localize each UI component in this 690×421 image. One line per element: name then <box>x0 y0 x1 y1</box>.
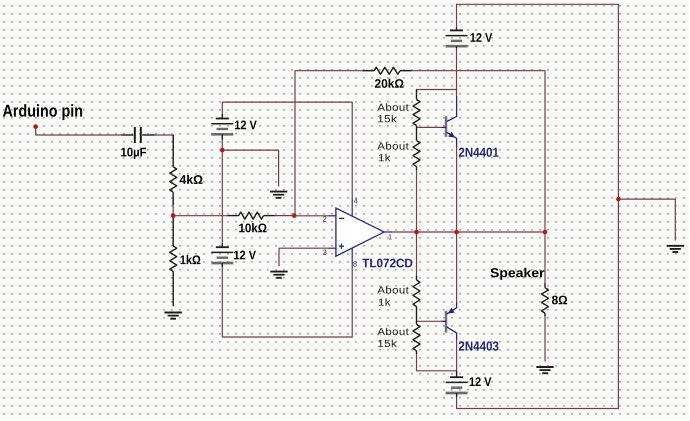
wire top chain corner to +rail <box>417 90 457 98</box>
pin 2 label <box>323 216 326 221</box>
label 1kΩ <box>180 255 200 264</box>
junction node J2 <box>171 213 176 218</box>
pin 4 label <box>354 198 358 203</box>
pin 1 label <box>389 234 392 239</box>
resistor About-1k lower <box>413 276 420 307</box>
transistor Q1 2N4401 <box>442 96 457 147</box>
wire 20k to output column corner <box>412 71 546 232</box>
wire Q1 base <box>417 126 442 128</box>
label 10kΩ <box>239 223 266 232</box>
resistor 1kΩ <box>170 216 177 307</box>
label Speaker <box>490 268 544 280</box>
wire op-amp output to speaker node <box>391 231 545 233</box>
wire battery V3 minus to op-amp pin 8 <box>222 264 352 337</box>
battery V4 12V <box>446 371 468 397</box>
wire node B to op-amp pin 2 <box>294 215 328 217</box>
pin 8 label <box>353 261 357 266</box>
wire node D to right ground G5 <box>618 199 675 240</box>
ground G5 <box>667 246 684 252</box>
wire bottom 15k to battery V4 node <box>417 354 457 371</box>
label TL072CD <box>362 259 412 268</box>
pin 3 label <box>323 250 327 255</box>
label 20kΩ <box>375 79 404 88</box>
label About (15k lower) <box>377 328 408 335</box>
resistor 20kΩ <box>363 67 412 74</box>
label 1k upper <box>379 154 391 161</box>
junction node J6 <box>454 230 459 235</box>
junction node J7 <box>543 230 548 235</box>
wire node C down to battery V3 <box>221 150 223 243</box>
wire node C to ground G2 <box>222 150 278 186</box>
label 4kΩ <box>180 175 203 184</box>
ground G3 <box>270 272 287 278</box>
label About (1k upper) <box>377 142 408 149</box>
op-amp U1 TL072CD <box>329 198 393 264</box>
label 2N4403 <box>459 341 499 350</box>
ground G4 <box>536 367 553 373</box>
ground G1 <box>165 313 182 319</box>
wire speaker node down to 8ohm <box>544 232 546 283</box>
label About (15k upper) <box>377 103 408 110</box>
label Arduino pin <box>3 104 82 120</box>
label 15k lower <box>378 340 397 347</box>
label 10µF <box>121 148 146 159</box>
resistor 10kΩ <box>228 212 275 219</box>
label V3 12 V <box>234 251 256 260</box>
wire capacitor to 4k resistor corner <box>155 135 174 155</box>
junction node J3 <box>220 148 225 153</box>
battery V2 12V <box>211 114 233 140</box>
label 1k lower <box>379 298 391 305</box>
junction node J8 <box>616 197 621 202</box>
label 15k upper <box>378 115 397 122</box>
wire feedback: node B up and right to 20k <box>295 71 363 216</box>
junction node J4 <box>292 213 297 218</box>
resistor About-1k upper <box>413 141 420 171</box>
ground G2 <box>270 192 287 198</box>
wire battery V2 plus to op-amp pin 4 <box>222 102 352 198</box>
label About (1k lower) <box>377 286 408 293</box>
wire node A to 10k resistor <box>173 215 227 217</box>
label 2N4401 <box>459 148 499 157</box>
wire Q1 emitter to output node <box>456 146 458 232</box>
resistor 8Ω speaker load <box>542 283 549 316</box>
resistor 4kΩ <box>170 135 177 205</box>
wire Q2 base <box>417 320 442 322</box>
resistor About-15k lower <box>413 307 420 355</box>
wire ground G3 to op-amp pin 3 <box>279 248 329 266</box>
wire 10k to inverting node B <box>275 215 295 217</box>
wire battery V1 to Q1 collector <box>456 49 458 97</box>
wire mid column through output node <box>416 169 418 277</box>
label V2 12 V <box>235 120 257 129</box>
wire 4k bottom to node A <box>172 204 174 216</box>
wire 8ohm to ground G4 <box>544 315 546 362</box>
resistor About-15k upper <box>413 90 420 141</box>
wire Q2 collector to battery V4 node <box>456 339 458 371</box>
battery V1 12V <box>446 28 468 49</box>
wire battery V2 minus to node C <box>221 140 223 151</box>
transistor Q2 2N4403 <box>442 302 457 340</box>
label V4 12 V <box>470 377 492 386</box>
junction node J5 <box>414 230 419 235</box>
wire output node to Q2 emitter <box>456 232 458 302</box>
label V1 12 V <box>470 33 492 42</box>
wire battery V1 top rail and right loop <box>457 4 619 408</box>
label 8Ω <box>552 296 567 305</box>
junction node J1 <box>33 124 38 129</box>
wire input from Arduino pin <box>36 127 122 135</box>
capacitor C1 10µF <box>122 127 155 143</box>
battery V3 12V <box>211 243 233 267</box>
